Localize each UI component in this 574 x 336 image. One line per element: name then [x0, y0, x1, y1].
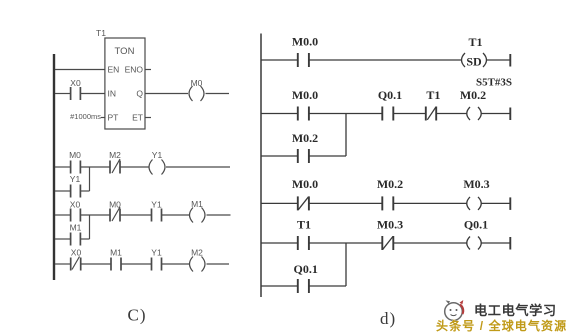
svg-text:M0.2: M0.2: [460, 88, 486, 102]
svg-text:M0.0: M0.0: [292, 88, 318, 102]
svg-text:Q0.1: Q0.1: [378, 88, 402, 102]
svg-text:M0.0: M0.0: [292, 35, 318, 49]
svg-text:T1: T1: [96, 28, 106, 38]
svg-text:M0.3: M0.3: [377, 218, 403, 232]
svg-text:M0.2: M0.2: [292, 131, 318, 145]
svg-text:M0.2: M0.2: [377, 177, 403, 191]
svg-text:M1: M1: [110, 248, 122, 258]
svg-text:Q0.1: Q0.1: [294, 262, 318, 276]
svg-text:IN: IN: [108, 89, 117, 99]
svg-text:T1: T1: [426, 88, 440, 102]
svg-text:ET: ET: [132, 113, 143, 123]
svg-text:Y1: Y1: [70, 174, 81, 184]
svg-text:ENO: ENO: [125, 65, 144, 75]
svg-text:X0: X0: [70, 78, 81, 88]
svg-text:M2: M2: [109, 150, 121, 160]
svg-text:M0.3: M0.3: [463, 177, 489, 191]
svg-text:C): C): [128, 306, 147, 325]
svg-text:X0: X0: [70, 200, 81, 210]
svg-text:T1: T1: [297, 218, 311, 232]
svg-text:X0: X0: [71, 248, 82, 258]
svg-text:M0: M0: [69, 150, 81, 160]
svg-text:Q: Q: [136, 89, 143, 99]
svg-text:M1: M1: [191, 199, 203, 209]
svg-text:M0: M0: [109, 200, 121, 210]
svg-text:d): d): [380, 309, 396, 328]
svg-text:M2: M2: [191, 248, 203, 258]
svg-text:#1000ms: #1000ms: [70, 112, 101, 121]
svg-text:T1: T1: [468, 35, 482, 49]
svg-text:EN: EN: [108, 65, 120, 75]
svg-text:SD: SD: [466, 54, 482, 68]
svg-text:Q0.1: Q0.1: [464, 218, 488, 232]
svg-text:S5T#3S: S5T#3S: [476, 77, 512, 89]
svg-text:Y1: Y1: [151, 200, 162, 210]
svg-text:PT: PT: [108, 113, 119, 123]
svg-text:M0: M0: [191, 78, 203, 88]
svg-text:Y1: Y1: [151, 248, 162, 258]
svg-text:M0.0: M0.0: [292, 177, 318, 191]
svg-text:TON: TON: [115, 46, 135, 57]
svg-text:M1: M1: [70, 223, 82, 233]
svg-text:电工电气学习: 电工电气学习: [474, 302, 557, 318]
svg-text:头条号 / 全球电气资源: 头条号 / 全球电气资源: [436, 318, 567, 333]
svg-text:Y1: Y1: [152, 150, 163, 160]
